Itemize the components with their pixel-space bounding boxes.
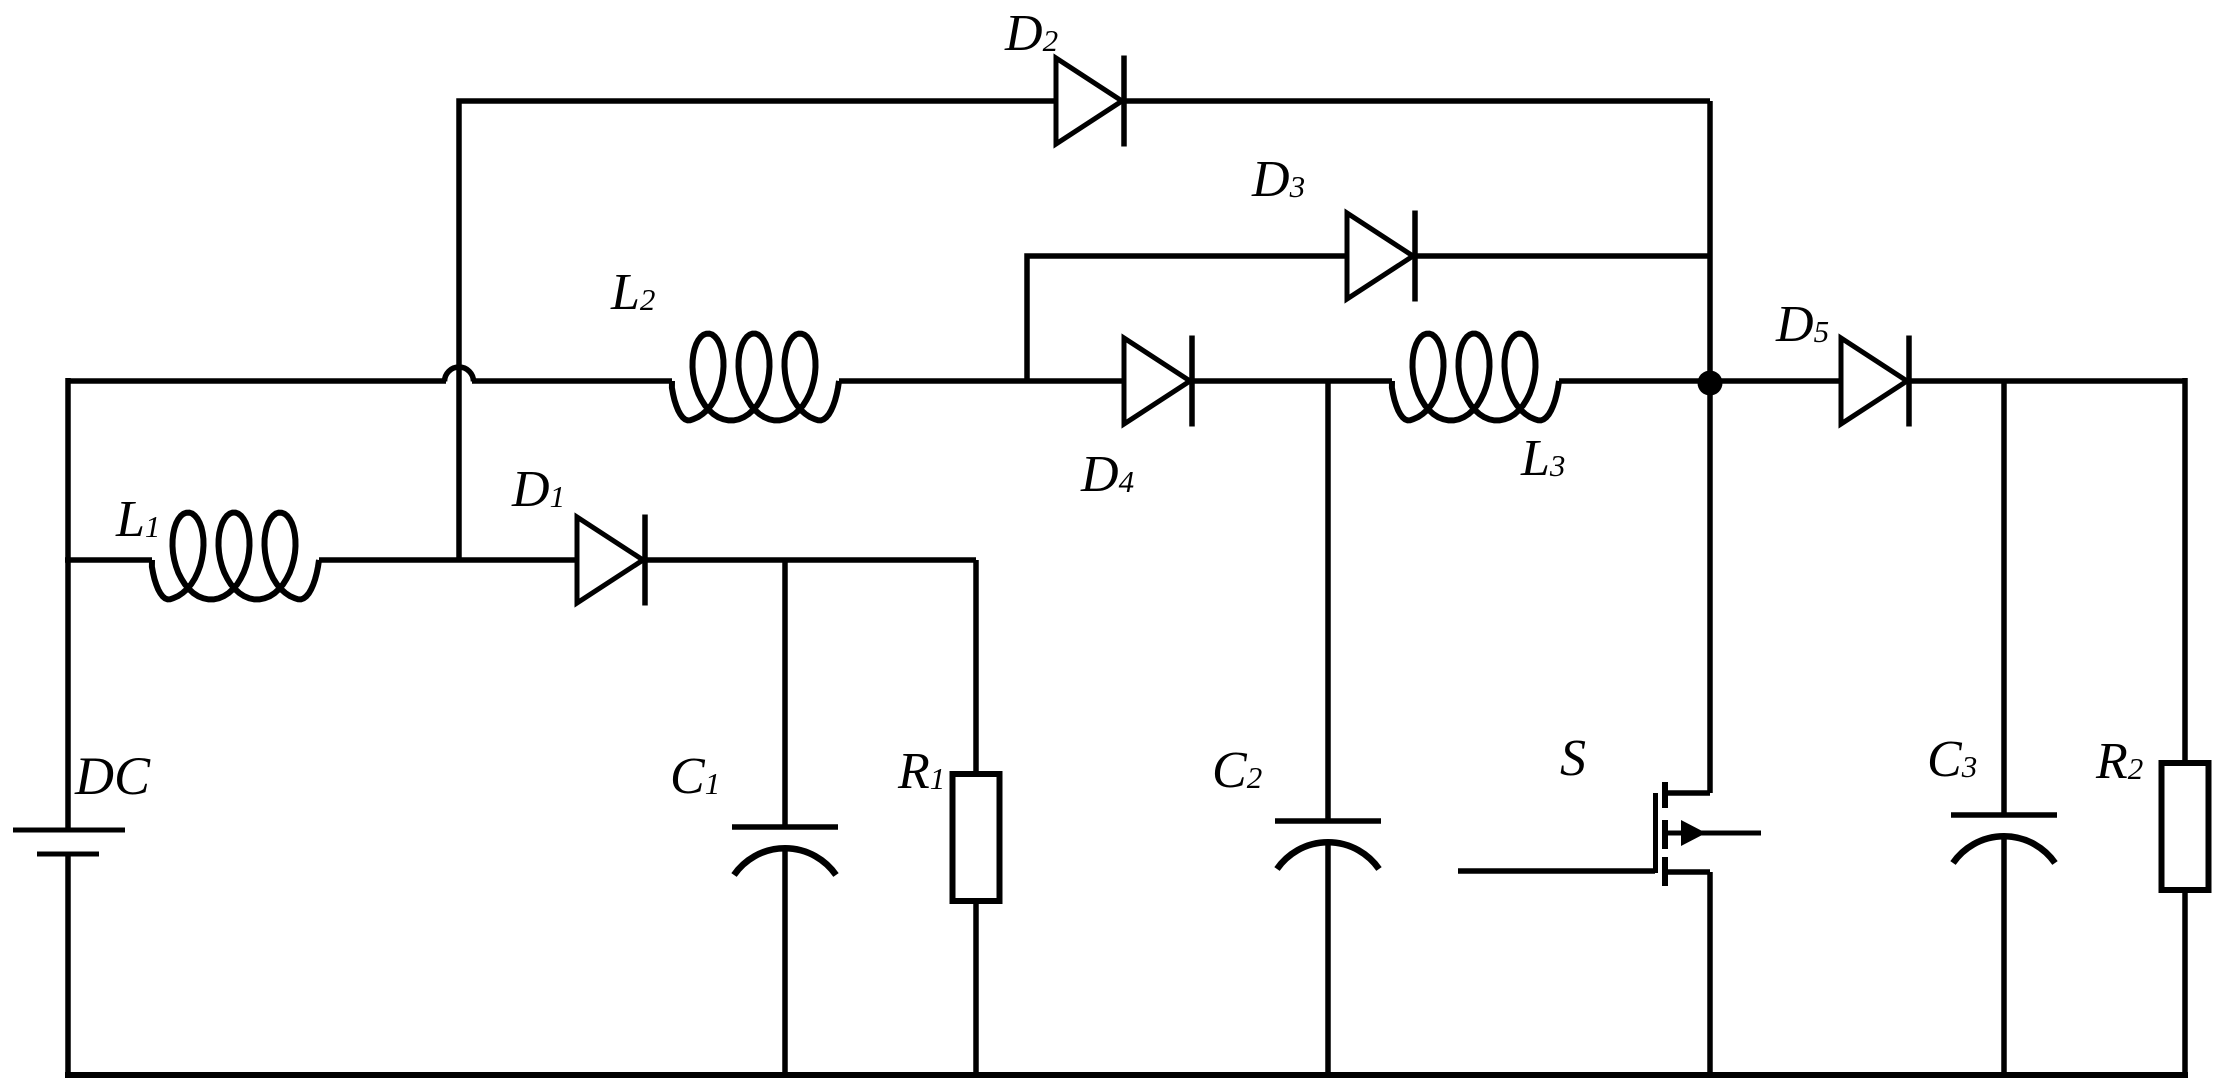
wire hop (crossover) on main bus over riser x=459	[445, 367, 474, 381]
capacitor C2 top plate	[1275, 818, 1381, 824]
wire R1 branch upper	[973, 560, 979, 774]
wire main bus hop to L2	[472, 378, 672, 384]
inductor L1	[152, 513, 319, 600]
capacitor C2 curved plate	[1277, 842, 1379, 869]
battery DC negative plate	[37, 852, 99, 857]
capacitor C1 top plate	[732, 824, 838, 830]
wire C1 branch upper	[782, 560, 788, 827]
diode D2 triangle	[1056, 58, 1122, 144]
diode D4 triangle	[1124, 338, 1190, 424]
wire C1 branch lower	[782, 850, 788, 1078]
battery DC positive plate	[13, 828, 125, 833]
resistor R2	[2162, 763, 2209, 890]
diode D5 cathode bar	[1906, 336, 1912, 427]
wire C3 branch lower	[2001, 838, 2007, 1078]
wire L1 row left stub	[65, 557, 152, 563]
svg-text:S: S	[1560, 730, 1586, 787]
capacitor C1 curved plate	[734, 848, 836, 875]
svg-text:DC: DC	[74, 746, 151, 806]
inductor L3	[1392, 334, 1559, 421]
wire C3 branch upper	[2001, 381, 2007, 815]
diode D1 cathode bar	[642, 515, 648, 606]
diode D2 cathode bar	[1121, 56, 1127, 147]
inductor L2	[672, 334, 839, 421]
wire R1 branch lower	[973, 901, 979, 1078]
capacitor C3 curved plate	[1953, 836, 2055, 863]
diode D1 triangle	[577, 517, 643, 603]
wire C2 branch upper	[1325, 381, 1331, 821]
wire R2 branch lower	[2182, 890, 2188, 1078]
wire DC branch lower	[65, 854, 71, 1078]
wire R2 branch upper (right edge vertical)	[2182, 378, 2188, 763]
capacitor C3 top plate	[1951, 812, 2057, 818]
wire main bus L3 to right edge (through node and D5)	[1559, 378, 2185, 384]
diode D3 cathode bar	[1412, 211, 1418, 302]
wire bottom return bus	[65, 1072, 2188, 1078]
node A junction dot at bus/drain	[1698, 371, 1723, 396]
wire main bus L2 to L3 (through D4, C2 tap)	[839, 378, 1392, 384]
wire C2 branch lower	[1325, 844, 1331, 1078]
transistor S (MOSFET)	[1458, 782, 1761, 1078]
wire D2 rail left riser (x=459, from D1 row up to top rail)	[459, 101, 1710, 560]
diode D3 triangle	[1347, 213, 1413, 299]
wire DC branch upper (left edge vertical)	[65, 378, 71, 830]
wire L1 row from coil through D1 to R1 corner	[319, 557, 976, 563]
resistor R1	[953, 774, 1000, 901]
wire right riser x=1710 (top rail down through D3 rail and node to drain)	[1707, 101, 1713, 793]
diode D5 triangle	[1841, 338, 1907, 424]
wire main bus from left edge to hop	[68, 378, 446, 384]
wire D3 rail riser and run (from main bus up at x=1027 then right)	[1027, 256, 1710, 381]
diode D4 cathode bar	[1189, 336, 1195, 427]
